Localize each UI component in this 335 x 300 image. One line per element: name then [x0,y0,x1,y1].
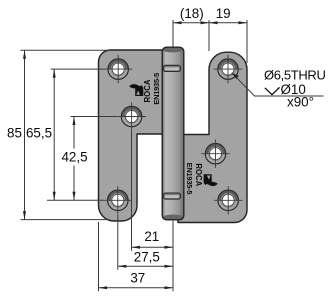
svg-text:ROCA: ROCA [143,79,152,102]
dimension line 65,5 [53,69,55,200]
dimension line 85 [24,50,26,219]
ROCA bird logo (right leaf) [204,174,218,186]
knuckle bottom cap shading [163,215,184,221]
right hinge leaf [178,52,247,222]
leader arrowhead [232,73,239,79]
dimension line (18)/19 top [173,22,247,24]
knuckle (hinge barrel) [162,47,184,220]
svg-text:ROCA: ROCA [194,163,203,186]
svg-text:37: 37 [130,271,145,286]
svg-text:EN1935-5: EN1935-5 [185,163,194,195]
hole R2 (right leaf middle) [201,140,229,168]
left hinge leaf [99,50,171,221]
knuckle bottom slot [163,193,180,199]
hole L3 (left leaf bottom) [104,186,132,214]
knuckle top cap shading [163,47,184,53]
hole L1 (left leaf top, countersunk) [104,55,132,83]
svg-text:42,5: 42,5 [61,149,87,164]
arrowheads top dims [173,21,182,24]
dimension line 21 [132,246,174,248]
ROCA bird logo (left leaf) [129,84,143,96]
dimension line 27,5 [118,265,173,267]
svg-text:x90°: x90° [287,95,314,110]
dimension extension lines, top [173,20,247,63]
dimension line 42,5 (broken for text) [73,117,75,201]
svg-text:27,5: 27,5 [134,249,160,264]
svg-text:21: 21 [144,229,159,244]
bottom extension lines [99,131,174,291]
hole R3 (right leaf bottom) [214,186,242,214]
knuckle outline [162,47,184,220]
left extension lines [21,50,118,219]
dimension line 37 [99,287,174,289]
hole R1 (right leaf top) [214,55,242,83]
svg-text:85: 85 [7,126,22,141]
svg-text:65,5: 65,5 [26,126,52,141]
countersink symbol [265,87,280,94]
svg-text:19: 19 [216,6,231,21]
hole L2 (left leaf middle) [117,102,145,130]
svg-text:Ø6,5THRU: Ø6,5THRU [264,68,326,83]
svg-text:(18): (18) [180,6,204,21]
svg-text:EN1935-5: EN1935-5 [152,73,161,105]
leader line from hole R1 [232,73,324,96]
knuckle top slot [163,65,180,71]
